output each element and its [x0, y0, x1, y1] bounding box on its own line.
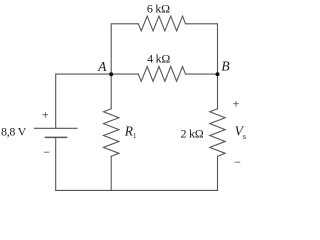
wire middle right [186, 73, 218, 75]
wire top left segment [111, 24, 138, 74]
svg-text:R1: R1 [124, 124, 137, 140]
battery long plate [35, 127, 78, 129]
svg-text:−: − [234, 155, 241, 169]
resistor 2k zigzag [210, 109, 225, 157]
svg-text:A: A [97, 59, 107, 74]
wire left branch bottom [55, 137, 57, 190]
resistor 6k zigzag [138, 16, 185, 31]
svg-text:8,8 V: 8,8 V [1, 125, 27, 139]
svg-text:6 kΩ: 6 kΩ [147, 1, 170, 15]
wire middle left [56, 74, 139, 128]
svg-text:2 kΩ: 2 kΩ [180, 126, 203, 140]
node A junction dot [109, 72, 113, 76]
svg-text:Vs: Vs [235, 123, 246, 140]
resistor 4k zigzag [138, 67, 185, 82]
svg-text:B: B [221, 59, 229, 74]
wire bottom [56, 189, 218, 191]
wire right branch bottom [217, 156, 219, 190]
wire top right segment [186, 24, 218, 109]
svg-text:−: − [43, 145, 50, 159]
resistor R1 zigzag [104, 109, 119, 157]
node B junction dot [216, 72, 220, 76]
wire middle branch bottom [110, 156, 112, 190]
wire middle branch top [110, 74, 112, 109]
svg-text:+: + [233, 97, 240, 111]
svg-text:+: + [42, 108, 49, 122]
svg-text:4 kΩ: 4 kΩ [147, 51, 170, 65]
battery short plate [46, 136, 67, 138]
